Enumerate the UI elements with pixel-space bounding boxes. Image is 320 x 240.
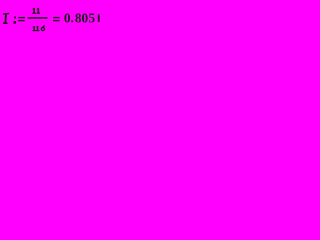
clipped digit stem at right edge bbox=[98, 14, 100, 22]
background bbox=[0, 0, 101, 38]
svg-text:80: 80 bbox=[75, 10, 89, 25]
subscript i (dot + body) bbox=[14, 17, 17, 24]
fraction bar bbox=[28, 17, 48, 19]
numerator digit 1 (first) bbox=[32, 8, 36, 14]
svg-text:0.: 0. bbox=[64, 10, 74, 25]
numerator digit 1 (second) bbox=[37, 8, 41, 14]
equals sign #1 bbox=[18, 17, 25, 21]
denominator digit 6 bbox=[41, 26, 44, 31]
denominator digit 1 (first) bbox=[33, 26, 36, 31]
equals sign #2 bbox=[53, 17, 60, 21]
svg-text:5: 5 bbox=[89, 10, 96, 25]
denominator digit 1 (second) bbox=[36, 26, 39, 31]
variable I (italic capital, top bar / stem / bottom serif) bbox=[3, 13, 9, 24]
